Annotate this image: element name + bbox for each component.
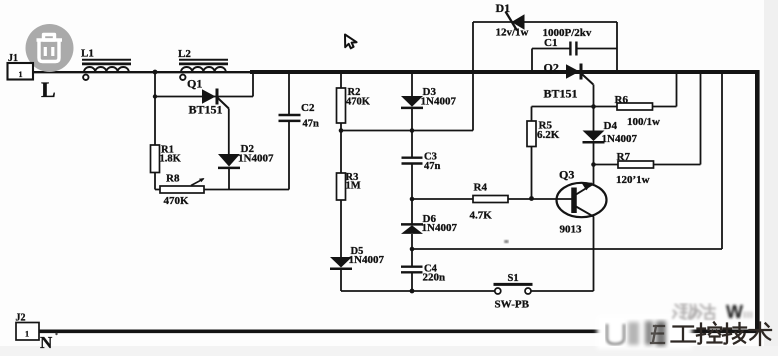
capacitor C2	[279, 115, 301, 121]
wire R1 to bottom	[154, 173, 156, 190]
svg-text:1N4007: 1N4007	[421, 96, 457, 108]
svg-text:1N4007: 1N4007	[602, 133, 638, 145]
svg-text:SW-PB: SW-PB	[495, 299, 530, 311]
svg-text:47n: 47n	[424, 161, 441, 172]
resistor R2	[337, 88, 346, 123]
node R5 base junction	[529, 196, 534, 201]
capacitor C3	[402, 158, 423, 164]
wire C1 level left	[532, 48, 570, 50]
wire D2 cathode to bottom	[228, 168, 230, 190]
wire R5 top link	[532, 106, 594, 108]
wire Q2 gate vertical	[593, 85, 595, 131]
svg-text:C2: C2	[301, 102, 315, 114]
wire R1 drop	[154, 97, 156, 146]
svg-text:470K: 470K	[164, 195, 190, 207]
svg-text:BT151: BT151	[189, 103, 223, 117]
wire C4 to bottom	[411, 273, 413, 292]
resistor R7	[618, 161, 654, 168]
svg-text:S1: S1	[508, 273, 519, 284]
wire C1 left drop	[531, 49, 533, 71]
svg-text:R7: R7	[617, 151, 631, 163]
thyristor Q1	[202, 89, 229, 109]
svg-text:Q2: Q2	[544, 61, 559, 75]
wire R7 riser	[700, 73, 702, 165]
wire cross link y130	[341, 130, 473, 132]
wire C3 to D6	[411, 164, 413, 224]
wire D4 to Q3 collector	[593, 143, 595, 185]
svg-text:1M: 1M	[346, 181, 361, 192]
node R2 bottom	[339, 128, 344, 133]
svg-text:Q1: Q1	[187, 77, 202, 91]
svg-text:47n: 47n	[303, 119, 320, 130]
node D3 bottom	[410, 128, 415, 133]
connector J2	[16, 323, 39, 341]
svg-text:220n: 220n	[423, 272, 446, 284]
wire x722 riser	[721, 74, 723, 249]
wire D3 to C3	[411, 108, 413, 157]
svg-text:6.2K: 6.2K	[537, 129, 560, 141]
node Q1 branch left	[153, 94, 157, 98]
resistor R4	[473, 196, 508, 203]
wire R5 top drop	[531, 107, 533, 122]
wire gate bottom horizontal	[155, 189, 289, 191]
svg-text:1.8K: 1.8K	[160, 154, 182, 165]
svg-text:1: 1	[25, 330, 29, 339]
inductor L1	[82, 60, 131, 80]
wire D6 to C4	[411, 234, 413, 266]
wire R6 riser	[676, 73, 678, 107]
svg-text:R8: R8	[166, 173, 180, 185]
wire Q1 gate vertical	[228, 109, 230, 155]
svg-text:BT151: BT151	[544, 87, 578, 101]
wire R7 right	[654, 164, 701, 166]
wire D3 top drop	[411, 72, 413, 96]
resistor R5	[527, 121, 536, 147]
svg-text:J2: J2	[16, 313, 26, 324]
wire D5 to bottom	[340, 269, 342, 291]
transistor Q3	[557, 183, 607, 218]
wire bottom mid horizontal	[341, 290, 495, 292]
wire D1 left riser x473	[472, 22, 474, 131]
svg-text:J1: J1	[8, 53, 18, 64]
wire R6 right	[653, 106, 677, 108]
wire R2 to R3	[340, 123, 342, 173]
svg-text:1N4007: 1N4007	[238, 153, 274, 165]
capacitor C4	[401, 267, 423, 273]
wire R4 left feed	[412, 198, 473, 200]
resistor R3	[337, 173, 346, 200]
svg-text:L: L	[41, 77, 56, 102]
wire C2 top drop	[288, 72, 290, 114]
svg-text:120’1w: 120’1w	[616, 174, 650, 186]
wire L rail thin segment	[33, 71, 252, 73]
svg-text:R6: R6	[615, 94, 629, 106]
diode D2	[218, 154, 240, 168]
wire D6 link to x722	[412, 248, 722, 250]
wire Q1 loop left drop	[154, 72, 156, 97]
node gate R5 R6 tap	[591, 104, 596, 109]
svg-text:1N4007: 1N4007	[422, 222, 458, 234]
switch S1	[494, 284, 533, 294]
svg-text:L2: L2	[178, 48, 191, 60]
node R4 tap	[410, 197, 415, 202]
svg-text:470K: 470K	[346, 97, 371, 108]
artifact speck near R4	[504, 240, 508, 243]
wire Q3 bottom lead	[593, 217, 595, 291]
svg-text:D1: D1	[496, 1, 511, 15]
svg-text:1N4007: 1N4007	[349, 254, 385, 266]
inductor L2	[179, 60, 228, 80]
svg-text:R4: R4	[474, 182, 488, 194]
wire D1 top horizontal	[473, 21, 617, 23]
svg-text:D4: D4	[604, 120, 618, 132]
wire R3 to D5	[340, 200, 342, 257]
wire R6 left	[594, 106, 618, 108]
trash delete icon overlay	[26, 24, 74, 72]
wire S1 to emitter column	[531, 290, 594, 292]
node D6 bottom tap	[410, 247, 415, 252]
svg-text:C1: C1	[544, 37, 557, 49]
zener D1	[506, 12, 525, 31]
watermark gongkong jishu text	[651, 323, 771, 346]
wire Q1 loop right riser	[252, 72, 254, 97]
diode D4	[583, 131, 605, 143]
wire right edge vertical bus	[755, 70, 760, 332]
svg-text:L1: L1	[81, 48, 94, 60]
resistor R1	[151, 145, 160, 173]
wire R2 top drop	[340, 72, 342, 88]
wire R7 left	[594, 164, 619, 166]
wire N bottom rail	[39, 329, 759, 333]
capacitor C1	[570, 42, 576, 56]
connector J1	[8, 63, 34, 80]
diode D3	[401, 96, 423, 108]
wire right box edge x617	[616, 22, 618, 70]
svg-text:Q3: Q3	[559, 168, 574, 182]
wire R4 to base	[508, 198, 572, 200]
resistor R8	[160, 178, 205, 193]
wire C1 level right	[577, 48, 617, 50]
diode D6	[401, 224, 423, 234]
node R7 tap	[591, 162, 596, 167]
svg-text:9013: 9013	[560, 224, 583, 236]
svg-text:1: 1	[19, 70, 23, 79]
watermark censor blur patch	[597, 316, 692, 349]
resistor R6	[617, 103, 653, 110]
wire L rail thick segment	[250, 70, 760, 74]
watermark activate windows text	[673, 304, 715, 319]
mouse cursor arrow	[345, 35, 357, 49]
wire R5 bottom drop	[531, 147, 533, 199]
diode D5	[330, 257, 352, 269]
thyristor Q2	[566, 64, 593, 85]
wire C2 bottom	[288, 122, 290, 190]
svg-text:100/1w: 100/1w	[627, 116, 660, 128]
svg-text:12v/1w: 12v/1w	[496, 27, 529, 39]
node C4 bottom	[410, 289, 415, 294]
svg-text:N: N	[40, 333, 53, 352]
node junction L1-L2	[153, 70, 158, 75]
artifact dot near N	[55, 333, 57, 335]
svg-text:4.7K: 4.7K	[470, 210, 493, 222]
wire Q1 branch horizontal	[155, 96, 253, 98]
